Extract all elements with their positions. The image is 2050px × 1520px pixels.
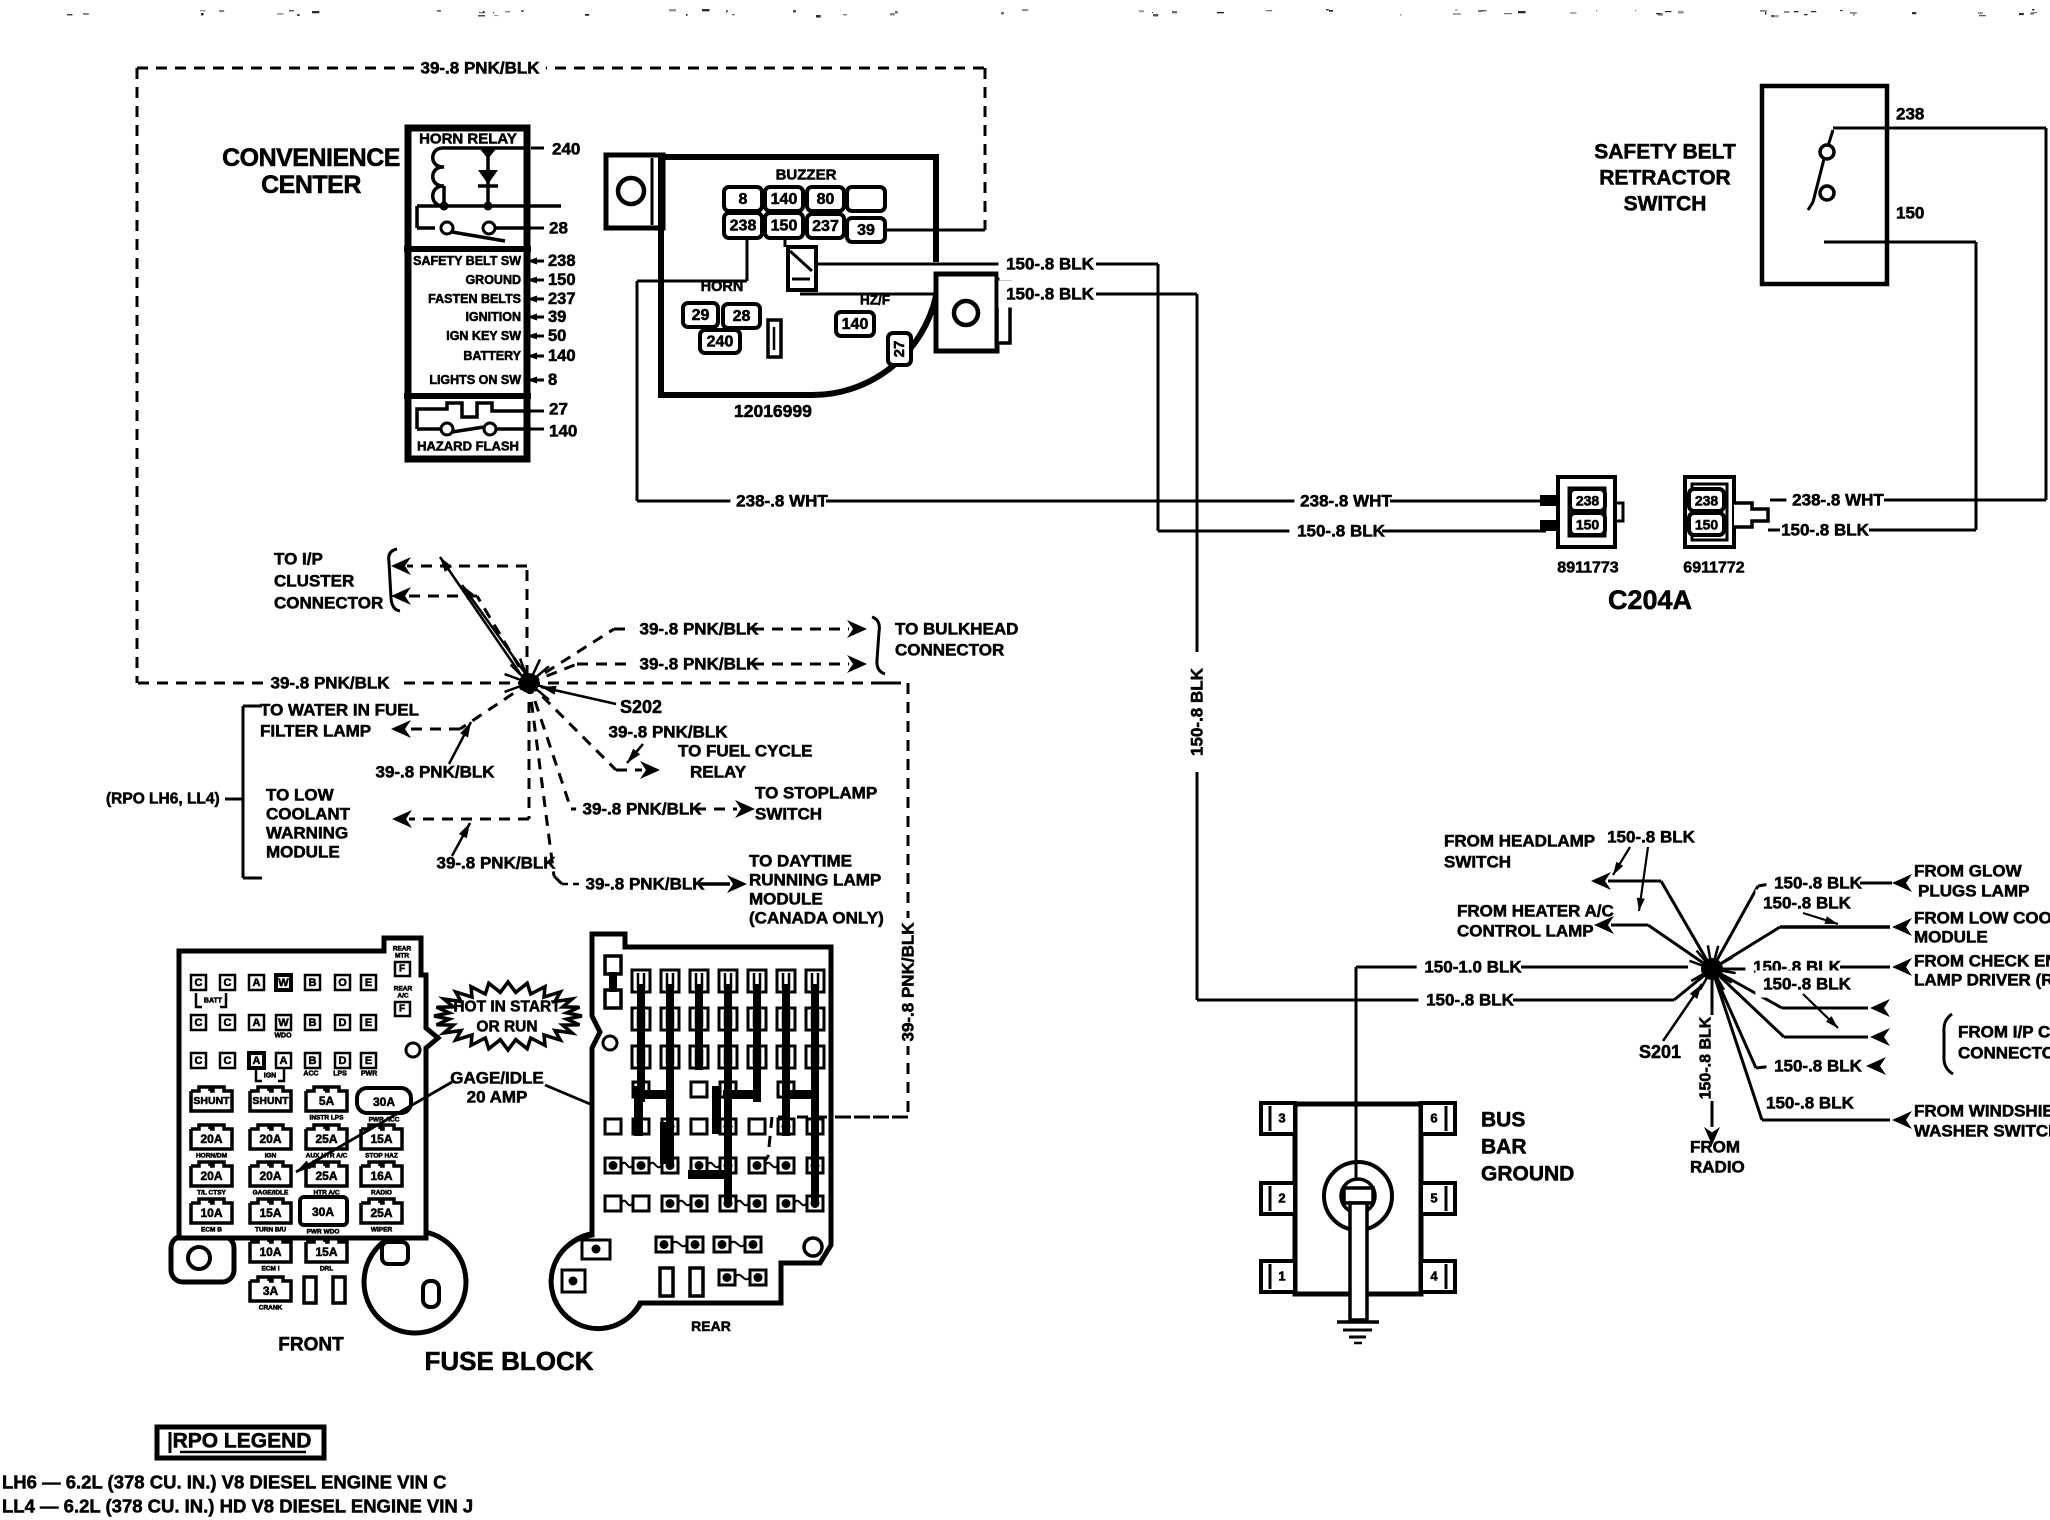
svg-text:RADIO: RADIO <box>1690 1158 1745 1177</box>
svg-text:140: 140 <box>842 316 869 333</box>
svg-text:LIGHTS ON SW: LIGHTS ON SW <box>429 373 521 387</box>
svg-text:WIPER: WIPER <box>371 1227 393 1234</box>
svg-text:20 AMP: 20 AMP <box>467 1088 528 1107</box>
svg-text:ECM B: ECM B <box>201 1227 222 1234</box>
svg-text:LL4 — 6.2L (378 CU. IN.) HD V8: LL4 — 6.2L (378 CU. IN.) HD V8 DIESEL EN… <box>2 1496 473 1517</box>
svg-text:150-.8 BLK: 150-.8 BLK <box>1297 522 1386 541</box>
svg-text:C: C <box>224 977 232 989</box>
svg-text:HOT IN START: HOT IN START <box>453 999 561 1016</box>
svg-text:A: A <box>253 1055 261 1067</box>
svg-text:3A: 3A <box>263 1284 279 1298</box>
svg-text:C: C <box>195 1055 203 1067</box>
svg-text:LH6 — 6.2L (378 CU. IN.) V8 DI: LH6 — 6.2L (378 CU. IN.) V8 DIESEL ENGIN… <box>2 1472 446 1493</box>
svg-text:39-.8 PNK/BLK: 39-.8 PNK/BLK <box>639 655 759 674</box>
svg-text:A/C: A/C <box>397 993 409 1000</box>
svg-text:MTR: MTR <box>395 953 409 960</box>
svg-text:140: 140 <box>548 347 576 365</box>
svg-text:238-.8 WHT: 238-.8 WHT <box>1792 491 1884 510</box>
svg-text:CONVENIENCE: CONVENIENCE <box>222 144 400 172</box>
svg-text:CLUSTER: CLUSTER <box>274 572 354 591</box>
svg-text:FROM WINDSHIELD: FROM WINDSHIELD <box>1914 1102 2050 1121</box>
svg-text:CONNECTOR: CONNECTOR <box>1958 1044 2050 1063</box>
svg-text:FROM GLOW: FROM GLOW <box>1914 862 2023 881</box>
svg-text:W: W <box>278 977 289 989</box>
svg-text:BUZZER: BUZZER <box>776 167 837 184</box>
svg-text:WASHER SWITCH: WASHER SWITCH <box>1914 1122 2050 1141</box>
svg-text:238: 238 <box>1695 493 1719 509</box>
svg-text:O: O <box>338 977 347 989</box>
svg-text:RELAY: RELAY <box>690 763 747 782</box>
svg-text:TO LOW: TO LOW <box>266 786 335 805</box>
svg-text:SAFETY BELT SW: SAFETY BELT SW <box>413 254 521 268</box>
svg-text:150-.8 BLK: 150-.8 BLK <box>1426 991 1515 1010</box>
svg-text:20A: 20A <box>200 1132 222 1146</box>
svg-text:C: C <box>195 977 203 989</box>
svg-text:28: 28 <box>733 308 751 325</box>
svg-text:240: 240 <box>707 334 734 351</box>
svg-text:BATT: BATT <box>204 998 223 1005</box>
svg-text:GAGE/IDLE: GAGE/IDLE <box>253 1190 289 1197</box>
svg-text:30A: 30A <box>312 1205 334 1219</box>
svg-text:E: E <box>365 977 372 989</box>
svg-text:SHUNT: SHUNT <box>252 1095 289 1107</box>
svg-text:150-.8 BLK: 150-.8 BLK <box>1766 1094 1855 1113</box>
svg-text:LAMP DRIVER (RPO LH6: LAMP DRIVER (RPO LH6 <box>1914 971 2050 990</box>
svg-text:LPS: LPS <box>333 1071 347 1078</box>
svg-text:150-.8 BLK: 150-.8 BLK <box>1006 285 1095 304</box>
svg-text:PWR: PWR <box>361 1071 377 1078</box>
svg-text:16A: 16A <box>370 1169 392 1183</box>
svg-text:150-.8 BLK: 150-.8 BLK <box>1006 255 1095 274</box>
svg-text:TO BULKHEAD: TO BULKHEAD <box>895 620 1018 639</box>
svg-text:D: D <box>339 1017 347 1029</box>
svg-text:TURN B/U: TURN B/U <box>255 1227 286 1234</box>
svg-text:25A: 25A <box>315 1132 337 1146</box>
svg-text:F: F <box>399 964 405 975</box>
svg-text:E: E <box>365 1017 372 1029</box>
svg-text:2: 2 <box>1278 1191 1285 1206</box>
svg-text:A: A <box>253 977 261 989</box>
svg-text:8911773: 8911773 <box>1557 560 1619 577</box>
svg-text:FUSE BLOCK: FUSE BLOCK <box>425 1346 594 1376</box>
svg-text:150-.8 BLK: 150-.8 BLK <box>1607 828 1696 847</box>
svg-text:INSTR LPS: INSTR LPS <box>310 1115 345 1122</box>
svg-text:140: 140 <box>549 422 577 441</box>
svg-text:150: 150 <box>1576 517 1600 533</box>
svg-text:RADIO: RADIO <box>371 1190 392 1197</box>
svg-text:8: 8 <box>739 191 748 208</box>
svg-text:BAR: BAR <box>1481 1136 1527 1159</box>
svg-text:RUNNING LAMP: RUNNING LAMP <box>749 871 881 890</box>
svg-text:20A: 20A <box>259 1169 281 1183</box>
svg-text:SWITCH: SWITCH <box>1624 193 1707 216</box>
svg-text:150-1.0 BLK: 150-1.0 BLK <box>1424 958 1522 977</box>
svg-text:39-.8 PNK/BLK: 39-.8 PNK/BLK <box>375 763 495 782</box>
svg-text:B: B <box>309 977 317 989</box>
svg-text:GAGE/IDLE: GAGE/IDLE <box>450 1069 544 1088</box>
svg-text:238: 238 <box>730 218 757 235</box>
svg-text:PWR WDO: PWR WDO <box>307 1229 340 1236</box>
svg-text:BUS: BUS <box>1481 1109 1525 1132</box>
svg-text:39-.8 PNK/BLK: 39-.8 PNK/BLK <box>639 620 759 639</box>
svg-text:6911772: 6911772 <box>1683 560 1745 577</box>
svg-text:150-.8 BLK: 150-.8 BLK <box>1763 894 1852 913</box>
svg-text:B: B <box>309 1017 317 1029</box>
svg-text:29: 29 <box>692 307 710 324</box>
svg-text:S201: S201 <box>1639 1042 1681 1062</box>
svg-text:15A: 15A <box>370 1132 392 1146</box>
svg-text:CONNECTOR: CONNECTOR <box>274 594 383 613</box>
svg-text:CONTROL LAMP: CONTROL LAMP <box>1457 922 1594 941</box>
svg-text:FRONT: FRONT <box>278 1335 344 1356</box>
svg-text:FROM LOW COOLANT: FROM LOW COOLANT <box>1914 909 2050 928</box>
svg-text:6: 6 <box>1430 1111 1437 1126</box>
svg-text:39-.8 PNK/BLK: 39-.8 PNK/BLK <box>420 59 540 78</box>
svg-text:150-.8 BLK: 150-.8 BLK <box>1774 1057 1863 1076</box>
svg-text:39: 39 <box>857 222 875 239</box>
svg-text:COOLANT: COOLANT <box>266 805 351 824</box>
svg-text:MODULE: MODULE <box>749 890 823 909</box>
svg-text:25A: 25A <box>370 1206 392 1220</box>
svg-text:E: E <box>365 1055 372 1067</box>
svg-text:FILTER LAMP: FILTER LAMP <box>260 722 371 741</box>
svg-text:HORN: HORN <box>701 279 744 295</box>
svg-text:150: 150 <box>1896 204 1924 223</box>
svg-text:WDO: WDO <box>274 1033 292 1040</box>
svg-text:C204A: C204A <box>1608 585 1692 615</box>
svg-text:150-.8 BLK: 150-.8 BLK <box>1763 975 1852 994</box>
svg-text:238: 238 <box>548 252 576 270</box>
svg-text:MODULE: MODULE <box>266 843 340 862</box>
svg-text:240: 240 <box>552 140 580 159</box>
svg-text:SWITCH: SWITCH <box>755 805 822 824</box>
svg-text:MODULE: MODULE <box>1914 928 1988 947</box>
svg-text:GROUND: GROUND <box>465 273 521 287</box>
svg-text:REAR: REAR <box>691 1318 731 1334</box>
svg-text:10A: 10A <box>200 1206 222 1220</box>
svg-text:5A: 5A <box>319 1094 335 1108</box>
svg-text:15A: 15A <box>259 1206 281 1220</box>
svg-text:FROM CHECK ENGINE: FROM CHECK ENGINE <box>1914 952 2050 971</box>
svg-text:A: A <box>280 1055 288 1067</box>
svg-text:50: 50 <box>548 327 566 345</box>
svg-text:39: 39 <box>548 308 566 326</box>
svg-text:W: W <box>278 1017 289 1029</box>
svg-text:150: 150 <box>548 271 576 289</box>
svg-text:IGN: IGN <box>264 1073 276 1080</box>
svg-text:FROM HEADLAMP: FROM HEADLAMP <box>1444 832 1595 851</box>
svg-text:WARNING: WARNING <box>266 824 348 843</box>
svg-text:SAFETY BELT: SAFETY BELT <box>1594 141 1736 164</box>
svg-text:80: 80 <box>817 191 835 208</box>
svg-text:DRL: DRL <box>320 1266 333 1273</box>
svg-text:39-.8 PNK/BLK: 39-.8 PNK/BLK <box>899 922 918 1042</box>
svg-text:238: 238 <box>1896 105 1924 124</box>
svg-text:150: 150 <box>1695 517 1719 533</box>
svg-text:238: 238 <box>1576 493 1600 509</box>
svg-text:237: 237 <box>812 218 839 235</box>
svg-text:C: C <box>224 1017 232 1029</box>
svg-text:A: A <box>253 1017 261 1029</box>
svg-text:CENTER: CENTER <box>261 171 361 199</box>
svg-text:(CANADA ONLY): (CANADA ONLY) <box>749 909 884 928</box>
svg-text:STOP HAZ: STOP HAZ <box>365 1153 398 1160</box>
svg-text:F: F <box>399 1004 405 1015</box>
svg-text:27: 27 <box>549 400 568 419</box>
svg-text:HORN RELAY: HORN RELAY <box>419 131 517 148</box>
svg-text:SHUNT: SHUNT <box>193 1095 230 1107</box>
svg-text:TO STOPLAMP: TO STOPLAMP <box>755 784 877 803</box>
svg-text:150-.8 BLK: 150-.8 BLK <box>1188 667 1207 756</box>
svg-text:HZ/F: HZ/F <box>860 293 890 308</box>
svg-text:CRANK: CRANK <box>259 1305 283 1312</box>
svg-text:FROM: FROM <box>1690 1138 1740 1157</box>
svg-text:30A: 30A <box>373 1095 395 1109</box>
svg-text:237: 237 <box>548 290 576 308</box>
svg-text:150-.8 BLK: 150-.8 BLK <box>1698 1016 1715 1099</box>
svg-text:TO FUEL CYCLE: TO FUEL CYCLE <box>678 742 812 761</box>
svg-text:15A: 15A <box>315 1245 337 1259</box>
svg-text:REAR: REAR <box>394 986 413 993</box>
svg-text:3: 3 <box>1278 1111 1285 1126</box>
svg-text:238-.8 WHT: 238-.8 WHT <box>736 492 828 511</box>
svg-text:RETRACTOR: RETRACTOR <box>1599 167 1730 190</box>
svg-text:20A: 20A <box>200 1169 222 1183</box>
svg-text:TO WATER IN FUEL: TO WATER IN FUEL <box>260 701 419 720</box>
svg-text:10A: 10A <box>259 1245 281 1259</box>
svg-text:20A: 20A <box>259 1132 281 1146</box>
svg-text:39-.8 PNK/BLK: 39-.8 PNK/BLK <box>582 800 702 819</box>
svg-text:5: 5 <box>1430 1191 1437 1206</box>
svg-text:C: C <box>195 1017 203 1029</box>
svg-text:28: 28 <box>549 219 568 238</box>
svg-text:REAR: REAR <box>393 946 412 953</box>
svg-text:IGN: IGN <box>265 1153 277 1160</box>
svg-text:FASTEN BELTS: FASTEN BELTS <box>428 292 521 306</box>
svg-text:4: 4 <box>1430 1269 1438 1284</box>
svg-text:OR RUN: OR RUN <box>476 1019 537 1036</box>
svg-text:150-.8 BLK: 150-.8 BLK <box>1781 521 1870 540</box>
svg-text:140: 140 <box>771 191 798 208</box>
svg-text:T/L CTSY: T/L CTSY <box>197 1190 226 1197</box>
svg-text:27: 27 <box>891 341 908 358</box>
svg-text:SWITCH: SWITCH <box>1444 853 1511 872</box>
svg-text:12016999: 12016999 <box>734 401 812 421</box>
svg-text:39-.8 PNK/BLK: 39-.8 PNK/BLK <box>436 854 556 873</box>
svg-text:ACC: ACC <box>303 1071 318 1078</box>
svg-text:TO DAYTIME: TO DAYTIME <box>749 852 852 871</box>
svg-text:25A: 25A <box>315 1169 337 1183</box>
svg-text:IGNITION: IGNITION <box>465 310 521 324</box>
svg-text:TO I/P: TO I/P <box>274 550 323 569</box>
svg-text:HAZARD FLASH: HAZARD FLASH <box>417 439 519 454</box>
svg-text:150: 150 <box>771 218 798 235</box>
svg-text:39-.8 PNK/BLK: 39-.8 PNK/BLK <box>585 875 705 894</box>
svg-text:HORN/DM: HORN/DM <box>196 1153 227 1160</box>
svg-text:PLUGS LAMP: PLUGS LAMP <box>1918 882 2029 901</box>
svg-text:39-.8 PNK/BLK: 39-.8 PNK/BLK <box>608 723 728 742</box>
svg-text:GROUND: GROUND <box>1481 1163 1574 1186</box>
svg-text:ECM I: ECM I <box>261 1266 279 1273</box>
svg-text:IGN KEY SW: IGN KEY SW <box>446 329 521 343</box>
svg-text:1: 1 <box>1278 1269 1285 1284</box>
svg-text:B: B <box>309 1055 317 1067</box>
svg-text:(RPO LH6, LL4): (RPO LH6, LL4) <box>106 791 220 808</box>
svg-text:39-.8 PNK/BLK: 39-.8 PNK/BLK <box>270 674 390 693</box>
svg-text:D: D <box>339 1055 347 1067</box>
svg-text:RPO LEGEND: RPO LEGEND <box>173 1430 312 1453</box>
svg-text:CONNECTOR: CONNECTOR <box>895 641 1004 660</box>
svg-text:FROM I/P CLUSTER: FROM I/P CLUSTER <box>1958 1023 2050 1042</box>
svg-text:S202: S202 <box>620 697 662 717</box>
svg-text:C: C <box>224 1055 232 1067</box>
svg-text:BATTERY: BATTERY <box>463 349 521 363</box>
svg-text:238-.8 WHT: 238-.8 WHT <box>1300 492 1392 511</box>
svg-text:FROM HEATER A/C: FROM HEATER A/C <box>1457 902 1614 921</box>
svg-text:8: 8 <box>548 371 557 389</box>
